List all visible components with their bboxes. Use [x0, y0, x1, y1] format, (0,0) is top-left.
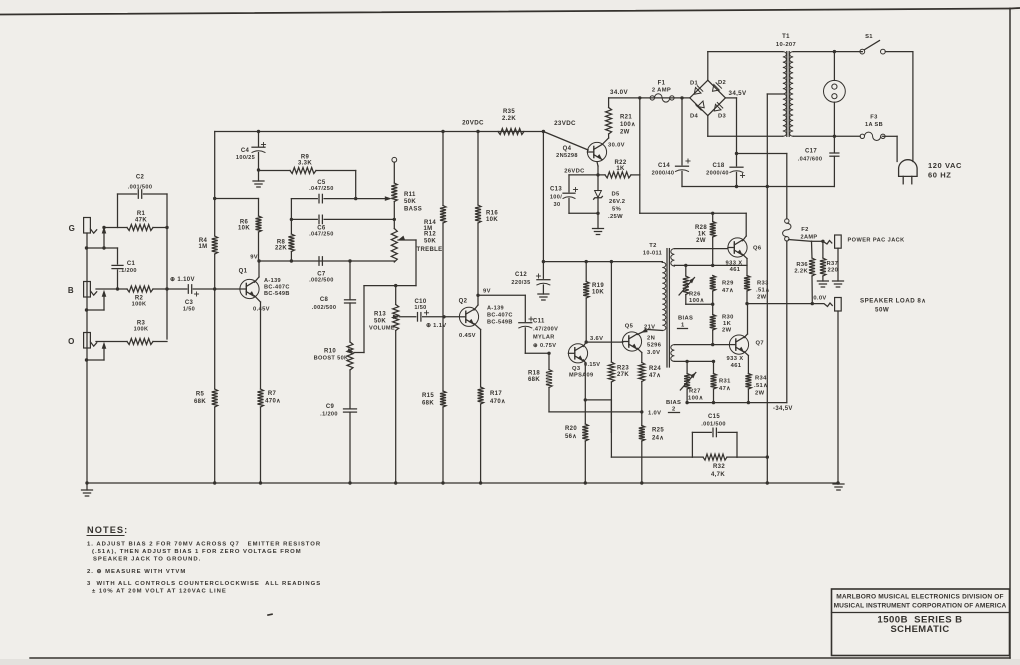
wire bridge bottom to T1 — [708, 116, 783, 137]
svg-text:27K: 27K — [617, 372, 629, 378]
svg-text:10K: 10K — [238, 226, 250, 232]
transistor Q1 — [239, 269, 290, 313]
capacitor C12 — [511, 262, 550, 294]
svg-text:220: 220 — [828, 268, 839, 274]
svg-text:34.0V: 34.0V — [610, 89, 628, 96]
svg-text:47∧: 47∧ — [719, 386, 731, 392]
svg-text:100∧: 100∧ — [620, 122, 636, 128]
capacitor C6 — [290, 215, 396, 237]
svg-text:BC-407C: BC-407C — [264, 285, 290, 291]
wire F2 down — [786, 241, 788, 403]
resistor R18 — [528, 353, 552, 412]
wire Q6 emitter — [743, 254, 747, 275]
jack G input — [69, 218, 97, 234]
svg-text:26VDC: 26VDC — [564, 169, 585, 175]
resistor R23 — [608, 262, 629, 400]
svg-text:3.0V: 3.0V — [647, 350, 660, 356]
wire C13 bottom link — [569, 212, 598, 214]
resistor R10 boost — [314, 303, 353, 409]
wire T1 primary bottom — [793, 135, 860, 138]
resistor R28 — [695, 213, 716, 267]
notes text — [87, 541, 321, 594]
wire 9V C7 line — [259, 259, 394, 262]
svg-text:1.0V: 1.0V — [648, 411, 661, 417]
wire Q5 collector to T2 — [637, 328, 662, 334]
svg-text:.047/250: .047/250 — [309, 232, 334, 238]
svg-text:50W: 50W — [875, 307, 889, 314]
svg-text:2W: 2W — [696, 238, 706, 244]
resistor R14 — [423, 132, 446, 317]
svg-text:R22: R22 — [614, 160, 626, 166]
svg-text:R37: R37 — [827, 261, 839, 267]
svg-text:470∧: 470∧ — [490, 399, 506, 405]
wire -34.5V line — [687, 403, 793, 412]
svg-text:47∧: 47∧ — [649, 373, 661, 379]
svg-text:26V.2: 26V.2 — [609, 199, 625, 205]
svg-text:30: 30 — [554, 202, 561, 208]
svg-text:C1: C1 — [127, 261, 136, 267]
wire Q2 emitter — [474, 324, 481, 387]
resistor R6 — [215, 199, 262, 262]
resistor R21 — [606, 98, 636, 136]
svg-text:50K: 50K — [374, 319, 386, 325]
svg-text:30.0V: 30.0V — [608, 143, 625, 149]
svg-text:2W: 2W — [757, 295, 767, 301]
svg-text:R5: R5 — [196, 392, 205, 398]
resistor R1 — [127, 211, 167, 231]
svg-text:0.45V: 0.45V — [253, 307, 270, 313]
resistor R2 — [127, 286, 167, 308]
svg-text:.1/200: .1/200 — [119, 268, 137, 274]
wire Q4 emitter 26VDC — [564, 162, 599, 177]
svg-text:C8: C8 — [320, 297, 329, 303]
svg-text:.1/200: .1/200 — [320, 412, 338, 418]
ground C12 — [538, 294, 549, 300]
svg-text:R31: R31 — [719, 379, 731, 385]
resistor R9 — [259, 155, 356, 174]
capacitor C4 — [236, 132, 266, 172]
svg-text:68K: 68K — [194, 399, 206, 405]
wire Q4 collector — [602, 134, 608, 144]
svg-text:Q7: Q7 — [756, 341, 764, 347]
svg-text:R15: R15 — [422, 393, 434, 399]
svg-text:0.45V: 0.45V — [459, 333, 476, 339]
svg-text:R20: R20 — [565, 426, 577, 432]
wire R13 wiper to C10 — [393, 315, 416, 319]
capacitor C13 — [550, 175, 578, 213]
transistor Q6 — [726, 238, 762, 273]
svg-text:10K: 10K — [486, 217, 498, 223]
fuse F2 — [783, 219, 818, 241]
svg-text:C2: C2 — [136, 175, 145, 181]
svg-text:9V: 9V — [483, 289, 491, 295]
svg-text:.47/200V: .47/200V — [533, 327, 558, 333]
svg-text:T1: T1 — [782, 34, 790, 40]
svg-text:F3: F3 — [870, 115, 878, 121]
svg-text:22K: 22K — [275, 246, 287, 252]
lamp pilot — [824, 52, 846, 137]
wire 0V PSU drop — [766, 187, 769, 485]
capacitor C9 — [320, 404, 356, 485]
svg-text:1K: 1K — [698, 232, 707, 238]
resistor R16 — [475, 132, 498, 297]
wire Q1 collector 9V — [250, 255, 260, 283]
svg-text:T2: T2 — [649, 243, 656, 249]
svg-text:Q4: Q4 — [563, 146, 572, 152]
wire Q3 collector — [583, 336, 603, 347]
resistor R36 — [794, 241, 815, 303]
wire 34.5V to F2 drop — [737, 154, 787, 219]
svg-text:R32: R32 — [713, 464, 725, 470]
svg-text:2 AMP: 2 AMP — [652, 88, 671, 94]
wire T1 center tap — [767, 94, 783, 187]
capacitor C18 — [706, 154, 744, 187]
wire Q1 emitter — [255, 296, 261, 389]
wire C11 to Q3 base — [525, 352, 550, 355]
svg-text:2W: 2W — [755, 391, 765, 397]
svg-text:Q3: Q3 — [572, 366, 581, 372]
node 34.5V — [729, 90, 747, 97]
wire Q5 emitter — [637, 348, 642, 362]
resistor R19 — [583, 262, 604, 344]
svg-text:933 X: 933 X — [727, 356, 744, 362]
wire 1.0V line — [549, 410, 661, 416]
capacitor C8 — [312, 261, 356, 311]
wire 0V line — [682, 185, 834, 188]
svg-text:2N: 2N — [647, 336, 655, 342]
svg-text:R19: R19 — [592, 283, 604, 289]
capacitor C2 — [118, 175, 168, 199]
svg-text:933 X: 933 X — [726, 261, 743, 267]
wire 26VDC line — [569, 174, 605, 176]
wire O input line — [96, 341, 127, 343]
wire T2 sec1 top to Q6 base — [674, 248, 728, 250]
svg-text:G: G — [69, 224, 76, 233]
svg-text:R10: R10 — [324, 349, 336, 355]
svg-text:1. ADJUST BIAS 2 FOR 70MV ACRO: 1. ADJUST BIAS 2 FOR 70MV ACROSS Q7 EMIT… — [87, 541, 321, 547]
wire 0.0V output line — [747, 296, 827, 306]
resistor R3 — [127, 321, 167, 345]
svg-text:2AMP: 2AMP — [801, 235, 818, 241]
wire 23V line to T2 — [543, 260, 662, 263]
svg-text:C9: C9 — [326, 404, 335, 410]
svg-text:.51∧: .51∧ — [754, 383, 768, 389]
fuse F3 — [860, 115, 885, 141]
resistor R15 — [422, 317, 446, 485]
transistor Q7 — [727, 335, 764, 369]
wire T2 primary top — [661, 261, 663, 264]
svg-text:10K: 10K — [592, 290, 604, 296]
svg-text:R13: R13 — [374, 312, 386, 318]
svg-text:C15: C15 — [708, 414, 720, 420]
resistor R20 — [565, 424, 588, 485]
svg-text:BASS: BASS — [404, 207, 422, 213]
svg-text:3.6V: 3.6V — [590, 336, 603, 342]
wire C2 left side — [117, 194, 119, 228]
svg-text:0.15V: 0.15V — [584, 362, 600, 368]
ground R37 — [817, 281, 828, 287]
svg-text:47∧: 47∧ — [722, 288, 734, 294]
resistor R4 — [198, 132, 217, 291]
svg-text:R11: R11 — [404, 192, 416, 198]
svg-text:.002/500: .002/500 — [309, 278, 334, 284]
wire Q7 collector — [744, 304, 747, 338]
svg-text:D3: D3 — [718, 114, 727, 120]
svg-text:C12: C12 — [515, 272, 527, 278]
diode D4 — [690, 98, 708, 120]
wire R2 to C3 — [167, 288, 187, 290]
transformer T2 — [643, 243, 675, 367]
svg-text:SPEAKER JACK TO GROUND.: SPEAKER JACK TO GROUND. — [93, 556, 201, 562]
wire 34V rail — [609, 89, 690, 100]
node label 1.1V — [426, 323, 447, 329]
svg-text:Q6: Q6 — [753, 246, 762, 252]
capacitor C10 — [414, 299, 445, 321]
wire bias1 link — [686, 303, 713, 305]
transistor Q5 — [622, 324, 661, 357]
svg-text:BC-549B: BC-549B — [487, 320, 513, 326]
svg-text:BIAS: BIAS — [678, 316, 693, 322]
svg-text:100/: 100/ — [550, 195, 562, 201]
svg-text:⊕ 1.10V: ⊕ 1.10V — [170, 277, 195, 283]
diode D3 — [708, 98, 727, 120]
wire feedback left drop — [611, 400, 692, 457]
ground speaker jack — [833, 481, 844, 490]
svg-text:50K: 50K — [424, 239, 436, 245]
notes heading — [87, 525, 128, 536]
svg-text:4,7K: 4,7K — [711, 472, 725, 478]
svg-text:C17: C17 — [805, 149, 817, 155]
svg-text:120 VAC: 120 VAC — [928, 161, 962, 170]
ground input bus — [82, 481, 93, 496]
wire F3 to plug — [883, 136, 897, 161]
svg-text:470∧: 470∧ — [265, 399, 281, 405]
svg-text:C13: C13 — [550, 187, 562, 193]
wire R22 feed to output — [640, 212, 746, 215]
transistor Q4 — [543, 132, 625, 162]
fuse F1 — [650, 81, 674, 103]
jack power pac — [823, 235, 905, 281]
svg-text:23VDC: 23VDC — [554, 120, 576, 127]
svg-text:60 HZ: 60 HZ — [928, 171, 951, 180]
svg-text:R18: R18 — [528, 371, 540, 377]
svg-text:2.2K: 2.2K — [794, 269, 808, 275]
resistor R7 — [258, 389, 281, 485]
svg-text:⊕ 0.75V: ⊕ 0.75V — [533, 343, 556, 349]
diode D2 — [708, 80, 726, 98]
svg-text:5296: 5296 — [647, 343, 662, 349]
svg-text:3 WITH ALL CONTROLS COUNTERCL: 3 WITH ALL CONTROLS COUNTERCLOCKWISE ALL… — [87, 581, 321, 587]
rheostat R26 bias1 — [679, 265, 704, 304]
svg-text:10-011: 10-011 — [643, 251, 662, 257]
stray mark — [268, 613, 272, 616]
wire Q2 collector 9V — [474, 289, 491, 311]
svg-text:5%: 5% — [612, 207, 621, 213]
capacitor C11 — [519, 317, 558, 353]
jack O shorting contact — [85, 342, 107, 362]
svg-text:-34,5V: -34,5V — [773, 406, 793, 412]
wire Q3 to Q5 base — [586, 341, 623, 343]
wire bridge right to C18 node — [725, 98, 738, 155]
svg-text:.047/600: .047/600 — [798, 157, 823, 163]
wire input right vertical — [165, 194, 168, 339]
capacitor C3 — [183, 285, 215, 313]
transistor Q3 — [568, 344, 600, 379]
transistor Q2 — [444, 299, 513, 340]
svg-text:2N5298: 2N5298 — [556, 153, 578, 159]
svg-text:100K: 100K — [134, 327, 149, 333]
svg-text:BC-549B: BC-549B — [264, 291, 290, 297]
capacitor C1 — [112, 248, 137, 291]
svg-text:.25W: .25W — [608, 214, 623, 220]
capacitor C17 — [798, 136, 839, 186]
svg-text:R1: R1 — [137, 211, 146, 217]
resistor R22 — [605, 160, 640, 178]
transformer T1 — [776, 34, 796, 136]
svg-text:R23: R23 — [617, 366, 629, 372]
svg-text:68K: 68K — [528, 377, 540, 383]
resistor R5 — [194, 289, 218, 485]
jack B shorting contact — [85, 290, 107, 312]
jack O input — [68, 333, 97, 349]
svg-text:B: B — [68, 286, 74, 295]
svg-text:100∧: 100∧ — [689, 298, 704, 304]
svg-text:3.3K: 3.3K — [298, 161, 312, 167]
wire R12 wiper — [364, 236, 416, 288]
diode D1 — [690, 80, 708, 98]
resistor R34 — [745, 374, 767, 405]
svg-text:C11: C11 — [533, 319, 545, 325]
svg-text:220/35: 220/35 — [511, 280, 530, 286]
resistor R33 — [744, 276, 770, 306]
label bias 1 — [678, 316, 694, 329]
resistor R8 — [275, 219, 294, 262]
svg-text:R29: R29 — [722, 281, 734, 287]
wire to Q1 base — [215, 288, 240, 290]
resistor R35 — [498, 109, 524, 135]
wire C5 to C6 left — [290, 199, 292, 220]
capacitor C15 and resistor R32 — [692, 414, 737, 478]
svg-text:C3: C3 — [185, 300, 194, 306]
svg-text:R27: R27 — [689, 389, 701, 395]
wire B input line — [96, 288, 127, 290]
svg-text:R26: R26 — [689, 292, 701, 298]
svg-text:S1: S1 — [865, 34, 873, 40]
svg-text:2W: 2W — [620, 130, 630, 136]
svg-text:A-139: A-139 — [264, 278, 281, 284]
svg-text:R17: R17 — [490, 391, 502, 397]
svg-text:1M: 1M — [198, 244, 207, 250]
resistor R25 — [639, 412, 665, 485]
wire Q3 emitter — [583, 360, 585, 424]
wire R10 wiper — [347, 286, 364, 353]
capacitor C14 — [652, 98, 690, 187]
svg-text:1K: 1K — [723, 321, 732, 327]
svg-text:2000/40: 2000/40 — [652, 171, 675, 177]
svg-text:2000/40: 2000/40 — [706, 171, 729, 177]
svg-text:± 10% AT 20M VOLT AT 120VAC LI: ± 10% AT 20M VOLT AT 120VAC LINE — [92, 588, 227, 594]
svg-text:NOTES:: NOTES: — [87, 525, 128, 535]
wire 9V to C11 — [478, 295, 525, 321]
svg-text:68K: 68K — [422, 401, 434, 407]
svg-text:R30: R30 — [722, 315, 734, 321]
ground D5 — [593, 229, 604, 235]
plug 120VAC — [899, 160, 962, 184]
wire T2 sec2 bottom line — [674, 360, 715, 363]
title block — [832, 589, 1010, 656]
border bottom line — [30, 657, 1010, 659]
resistor R29 — [710, 276, 734, 306]
svg-text:R36: R36 — [796, 262, 808, 268]
svg-text:47K: 47K — [135, 218, 147, 224]
jack B input — [68, 282, 97, 298]
resistor R31 — [711, 361, 732, 404]
zener diode D5 — [594, 175, 626, 229]
resistor R17 — [478, 387, 506, 485]
svg-text:POWER PAC JACK: POWER PAC JACK — [848, 238, 905, 244]
svg-text:2.2K: 2.2K — [502, 116, 516, 122]
svg-text:461: 461 — [730, 267, 741, 273]
svg-text:MYLAR: MYLAR — [533, 335, 555, 341]
svg-text:MPSA09: MPSA09 — [569, 372, 593, 378]
switch S1 — [860, 34, 913, 54]
svg-text:461: 461 — [731, 363, 742, 369]
svg-text:.001/500: .001/500 — [701, 422, 726, 428]
svg-text:R21: R21 — [620, 115, 632, 121]
resistor R24 — [639, 363, 662, 412]
svg-text:Q2: Q2 — [459, 299, 468, 305]
svg-text:50K: 50K — [404, 199, 416, 205]
svg-text:(.51∧), THEN ADJUST BIAS 1 FOR: (.51∧), THEN ADJUST BIAS 1 FOR ZERO VOLT… — [92, 549, 302, 555]
svg-text:1/50: 1/50 — [183, 307, 195, 313]
wire G node — [102, 226, 127, 229]
svg-text:R28: R28 — [695, 225, 707, 231]
svg-text:2. ⊕ MEASURE WITH VTVM: 2. ⊕ MEASURE WITH VTVM — [87, 569, 186, 575]
svg-text:R25: R25 — [652, 428, 664, 434]
wire 23VDC drop — [542, 130, 545, 263]
svg-text:D1: D1 — [690, 81, 699, 87]
potentiometer R13 volume — [369, 286, 399, 485]
svg-text:F2: F2 — [801, 227, 808, 233]
border right line — [1009, 9, 1011, 659]
svg-text:C14: C14 — [658, 163, 670, 169]
wire Q6 collector — [743, 213, 747, 240]
jack G shorting contact — [85, 227, 118, 250]
svg-text:MUSICAL INSTRUMENT CORPORATION: MUSICAL INSTRUMENT CORPORATION OF AMERIC… — [834, 602, 1007, 609]
svg-text:MARLBORO MUSICAL ELECTRONICS D: MARLBORO MUSICAL ELECTRONICS DIVISION OF — [836, 594, 1003, 601]
capacitor C7 — [309, 257, 334, 284]
wire bridge top to T1 — [708, 52, 783, 81]
svg-text:SPEAKER LOAD 8∧: SPEAKER LOAD 8∧ — [860, 298, 926, 305]
svg-text:10-207: 10-207 — [776, 42, 796, 48]
svg-text:Q1: Q1 — [239, 269, 248, 275]
potentiometer R12 treble — [391, 219, 442, 262]
wire T2 sec1 bottom line — [674, 264, 747, 267]
svg-text:0.0V: 0.0V — [813, 296, 826, 302]
wire R9 to C5 line — [354, 171, 357, 201]
svg-text:R24: R24 — [649, 366, 661, 372]
wire T1 primary top — [793, 50, 862, 53]
svg-text:O: O — [68, 337, 75, 346]
svg-text:BC-407C: BC-407C — [487, 313, 513, 319]
potentiometer R11 bass — [391, 157, 422, 219]
resistor R37 — [820, 241, 838, 281]
wire S1 to plug — [912, 52, 914, 162]
svg-text:.002/500: .002/500 — [312, 305, 337, 311]
wire Q7 emitter — [744, 352, 748, 374]
svg-text:1: 1 — [681, 323, 685, 329]
svg-text:BIAS: BIAS — [666, 400, 681, 406]
